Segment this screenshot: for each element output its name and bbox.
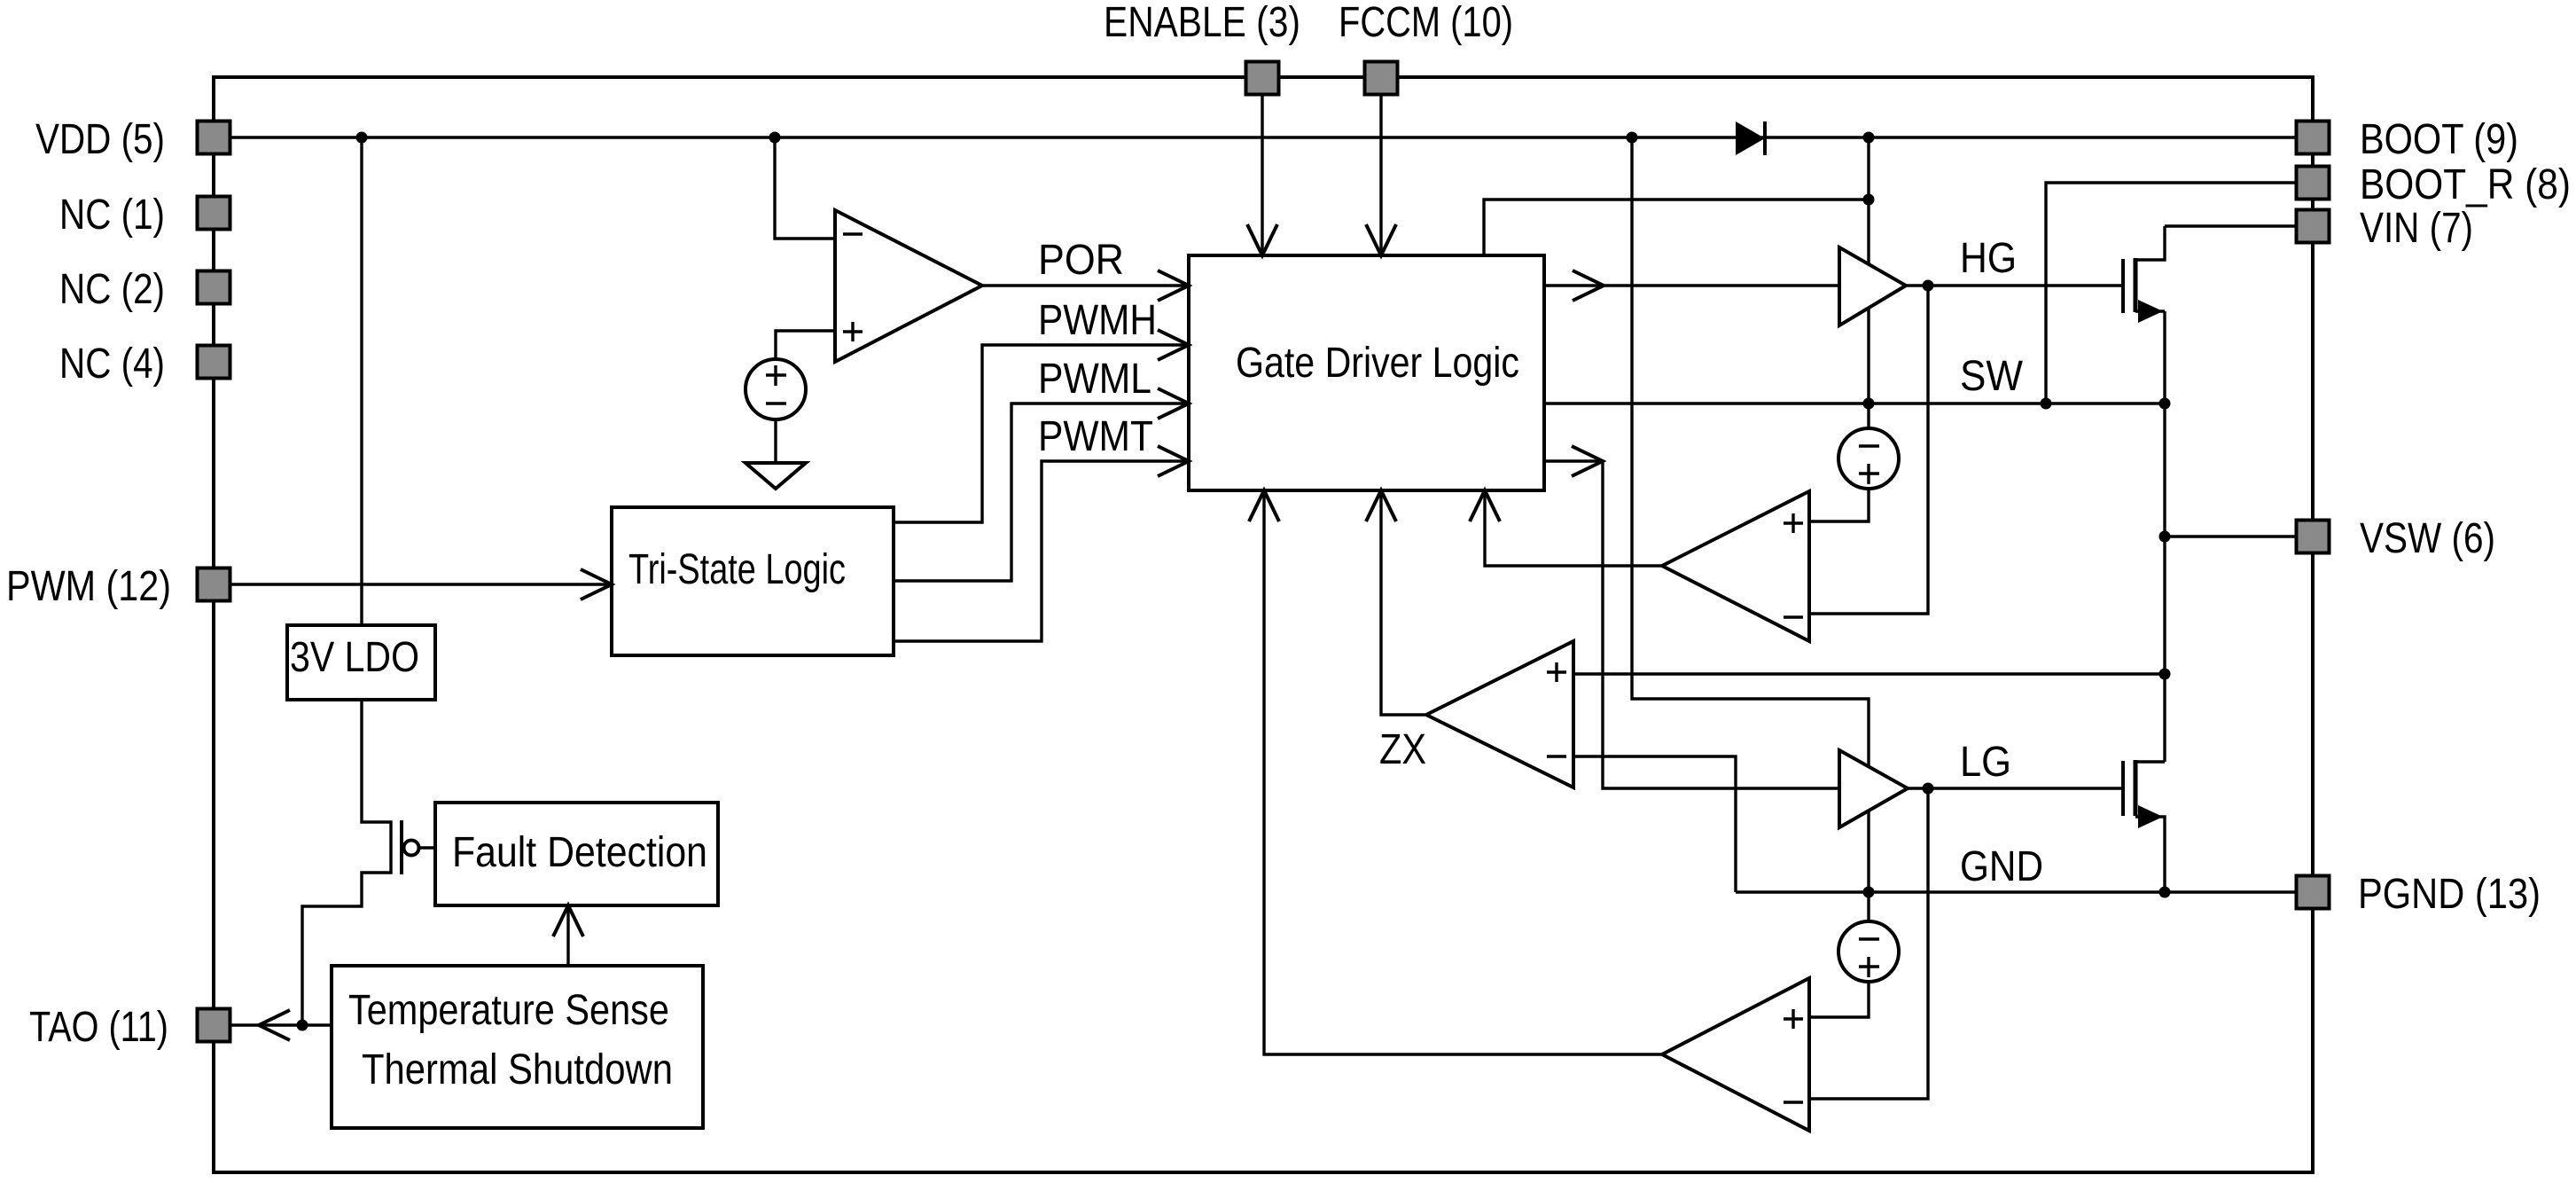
svg-text:ZX: ZX [1379, 726, 1426, 773]
pin PGND (13) [2297, 871, 2541, 918]
wire Gate Driver Logic top feedback [1484, 200, 1869, 255]
arrow into Fault Detection [553, 905, 583, 936]
block 3V LDO [287, 625, 435, 700]
svg-text:PWML: PWML [1038, 356, 1151, 403]
wire ZX output to Gate Driver Logic [1381, 490, 1426, 715]
buffer LG driver [1839, 750, 1908, 827]
wire SW to offset V2 [1867, 403, 1870, 428]
transistor Q1 high-side NMOS [2123, 226, 2165, 323]
svg-text:NC (1): NC (1) [59, 192, 165, 239]
svg-text:PWM (12): PWM (12) [6, 563, 171, 610]
wire VIN to Q1 drain [2165, 224, 2296, 227]
diode D1 bootstrap [1736, 121, 1765, 155]
pin VDD (5) [35, 116, 230, 163]
svg-text:SW: SW [1960, 353, 2024, 400]
svg-text:GND: GND [1960, 843, 2043, 890]
pin TAO (11) [29, 1004, 230, 1051]
wire FCCM drop [1379, 94, 1382, 255]
wire BOOT rail down through HG driver [1867, 137, 1870, 403]
wire VDD power to LG driver [1632, 137, 1869, 892]
junction VSW tap [2159, 531, 2171, 543]
wire VDD rail [230, 136, 2296, 138]
arrow TAO out [259, 1010, 290, 1040]
arrow PWMH into Gate Driver Logic [1158, 330, 1189, 360]
buffer HG driver [1839, 247, 1906, 325]
block Temperature Sense / Thermal Shutdown [332, 966, 703, 1128]
svg-text:VDD (5): VDD (5) [35, 116, 165, 163]
svg-text:NC (4): NC (4) [59, 341, 165, 388]
wire ZX minus to GND [1573, 756, 1736, 892]
op-amp U3 ZX comparator [1426, 641, 1573, 787]
op-amp U2 HG-SW comparator [1662, 491, 1809, 641]
junction ZX-SW [2159, 669, 2171, 680]
op-amp U1 UVLO comparator [835, 210, 982, 362]
voltage source V2 HG offset [1838, 428, 1899, 489]
svg-text:TAO (11): TAO (11) [29, 1004, 168, 1051]
arrow ZX output [1366, 490, 1396, 521]
wire offset V3 to comparator plus [1809, 982, 1869, 1017]
wire VDD to 3V LDO [360, 137, 363, 625]
svg-text:VSW (6): VSW (6) [2360, 515, 2495, 562]
pin NC (1) [59, 192, 230, 239]
junction TAO-Q3 drain [297, 1020, 308, 1031]
junction VDD-UVLO tap [769, 132, 781, 144]
pin BOOT (9) [2297, 116, 2519, 163]
wire VDD to UVLO minus input [775, 137, 835, 239]
arrow POR into Gate Driver Logic [1158, 270, 1189, 301]
block Tri-State Logic [612, 507, 894, 655]
junction BOOT-HG driver tap [1863, 132, 1875, 144]
junction HG node [1923, 280, 1934, 292]
junction SW-Q1 source [2159, 398, 2171, 410]
wire SW vertical to Q2 drain [2163, 311, 2166, 762]
wire PWMH [894, 345, 1189, 522]
svg-text:NC (2): NC (2) [59, 266, 165, 313]
junction GND-Q2 source [2159, 887, 2171, 898]
wire U2 output to Gate Driver Logic [1485, 490, 1662, 566]
arrow U2 output [1470, 490, 1500, 521]
svg-text:Thermal Shutdown: Thermal Shutdown [362, 1046, 673, 1093]
svg-text:3V LDO: 3V LDO [290, 634, 419, 681]
wire U4 output to Gate Driver Logic [1264, 490, 1662, 1054]
transistor Q2 low-side NMOS [2123, 760, 2165, 892]
IC outline border [214, 77, 2313, 1172]
pin FCCM (10) [1339, 0, 1513, 95]
wire PWMT [894, 461, 1189, 641]
svg-text:PWMH: PWMH [1038, 297, 1157, 344]
wire LG drive signal [1544, 461, 1839, 788]
wire HG drive signal [1544, 284, 1839, 286]
junction GND-offset V3 [1863, 887, 1875, 898]
svg-text:POR: POR [1038, 237, 1124, 284]
arrow FCCM into Gate Driver Logic [1366, 224, 1396, 255]
wire VSW [2165, 535, 2296, 537]
op-amp U4 LG-GND comparator [1662, 978, 1809, 1131]
block Gate Driver Logic [1189, 255, 1544, 490]
arrow PWML into Gate Driver Logic [1158, 388, 1189, 419]
svg-text:BOOT_R (8): BOOT_R (8) [2360, 161, 2571, 208]
svg-text:Fault Detection: Fault Detection [452, 829, 707, 876]
svg-text:FCCM (10): FCCM (10) [1339, 0, 1513, 46]
wire Vref to UVLO plus input [776, 331, 835, 359]
wire SW node rail [1544, 402, 2165, 404]
voltage source V1 reference [745, 359, 806, 419]
wire offset V2 to comparator plus [1809, 489, 1869, 521]
pin NC (2) [59, 266, 230, 313]
wire BOOT_R to SW [2046, 183, 2296, 403]
arrow ENABLE into Gate Driver Logic [1247, 224, 1277, 255]
svg-text:VIN (7): VIN (7) [2360, 205, 2473, 252]
wire LG output [1908, 787, 2123, 789]
junction VDD-LDO tap [356, 132, 368, 144]
svg-text:LG: LG [1960, 739, 2011, 786]
arrow PWM into Tri-State Logic [581, 569, 612, 599]
arrow LG drive [1572, 446, 1603, 476]
wire LG sense to comparator minus [1809, 788, 1928, 1099]
voltage source V3 LG offset [1838, 921, 1899, 982]
wire ZX plus to SW [1573, 672, 2165, 675]
pin BOOT_R (8) [2297, 161, 2572, 208]
wire LDO to Q3 source and TAO [302, 700, 391, 1025]
pin NC (4) [59, 341, 230, 388]
junction VDD-LG driver tap [1627, 132, 1638, 144]
wire POR [982, 284, 1189, 286]
arrow U4 output [1249, 490, 1279, 521]
arrow PWMT into Gate Driver Logic [1158, 446, 1189, 476]
wire GND to offset V3 [1867, 892, 1870, 921]
wire GND rail [1736, 890, 2296, 893]
svg-text:Tri-State Logic: Tri-State Logic [628, 546, 846, 593]
svg-text:Temperature Sense: Temperature Sense [348, 987, 669, 1034]
wire Temperature Sense to Fault Detection [566, 905, 569, 966]
arrow HG drive [1573, 270, 1604, 301]
pin PWM (12) [6, 563, 230, 610]
pin VSW (6) [2297, 515, 2496, 562]
svg-text:BOOT (9): BOOT (9) [2360, 116, 2518, 163]
svg-text:PGND (13): PGND (13) [2358, 871, 2541, 918]
junction feedback-BOOT rail [1863, 194, 1875, 206]
svg-text:ENABLE (3): ENABLE (3) [1104, 0, 1300, 46]
wire ENABLE drop [1261, 94, 1263, 255]
svg-text:PWMT: PWMT [1038, 413, 1153, 460]
pin VIN (7) [2297, 205, 2474, 252]
junction SW-BOOT rail [1863, 398, 1875, 410]
svg-text:Gate Driver Logic: Gate Driver Logic [1236, 340, 1519, 387]
wire HG sense to comparator minus [1809, 286, 1928, 614]
junction SW-BOOT_R [2041, 398, 2052, 410]
ground [745, 463, 806, 489]
wire HG output [1906, 284, 2123, 286]
transistor Q3 PMOS pass [402, 820, 435, 874]
block Fault Detection [435, 803, 718, 905]
wire TAO output [230, 1023, 332, 1026]
pin ENABLE (3) [1104, 0, 1300, 95]
wire Vref to ground [774, 419, 777, 463]
junction LG node [1923, 783, 1934, 795]
svg-text:HG: HG [1960, 235, 2017, 282]
pin PWM (12) wire [230, 583, 612, 585]
wire PWML [894, 403, 1189, 581]
